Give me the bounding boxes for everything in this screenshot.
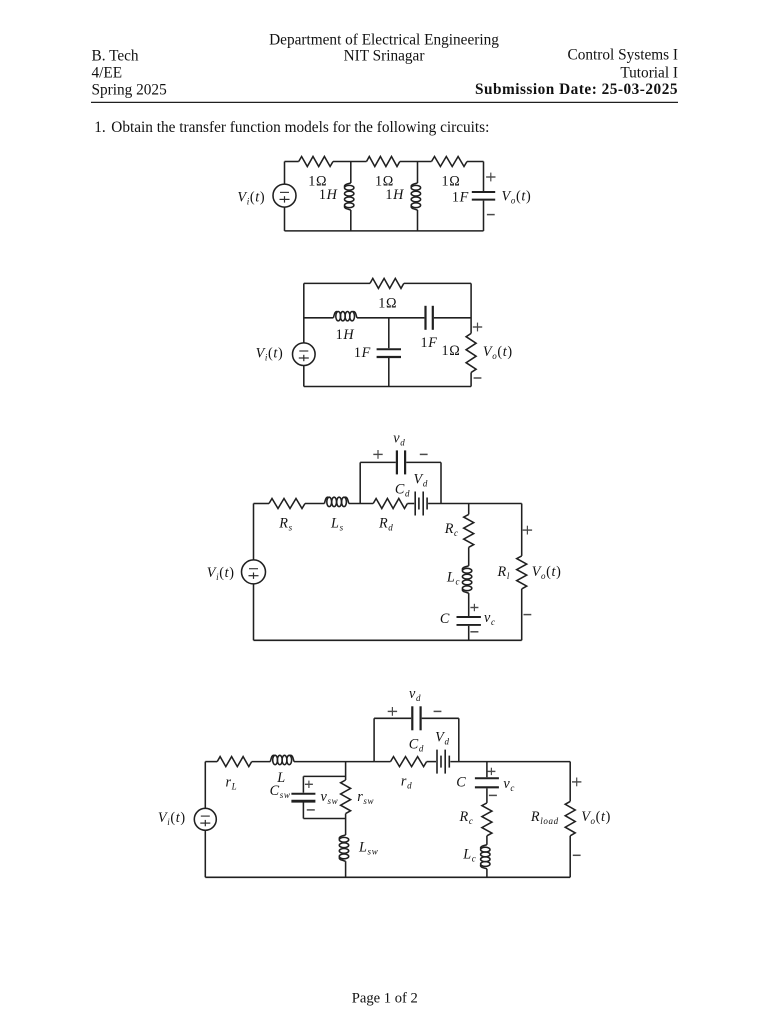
svg-text:vc: vc <box>503 776 515 793</box>
voltage source Vi(t) <box>293 343 316 366</box>
wire <box>422 717 459 719</box>
svg-text:rsw: rsw <box>357 789 374 806</box>
wire <box>350 162 352 184</box>
wire <box>303 366 305 387</box>
wire <box>486 869 488 878</box>
wire Csw top link <box>303 775 345 777</box>
svg-text:4/EE: 4/EE <box>92 64 123 81</box>
wire <box>468 547 470 566</box>
wire <box>303 283 305 343</box>
minus sign vc <box>489 794 497 796</box>
wire <box>357 317 425 319</box>
battery Vd <box>437 750 449 774</box>
minus sign vd <box>434 710 442 712</box>
wire <box>388 318 390 348</box>
capacitor 1F shunt <box>377 349 401 357</box>
wire <box>468 626 470 641</box>
inductor Ls <box>324 497 348 506</box>
wire <box>254 639 522 641</box>
wire <box>304 282 370 284</box>
voltage source Vi(t) <box>194 808 216 830</box>
wire <box>470 283 472 333</box>
svg-text:Vi(t): Vi(t) <box>237 189 265 206</box>
wire <box>284 207 286 231</box>
svg-text:Rs: Rs <box>278 516 292 533</box>
resistor R2 1ohm <box>367 157 400 167</box>
svg-text:1Ω: 1Ω <box>442 173 461 189</box>
svg-text:Rload: Rload <box>530 809 559 826</box>
svg-text:1F: 1F <box>452 190 469 206</box>
wire <box>305 503 324 505</box>
svg-text:Lc: Lc <box>446 570 460 587</box>
resistor Rload <box>565 801 575 835</box>
capacitor Cd <box>412 706 420 730</box>
plus sign output <box>486 176 495 178</box>
wire <box>468 504 470 515</box>
svg-text:Cd: Cd <box>395 482 410 499</box>
wire C branch <box>486 762 488 778</box>
plus sign vd <box>388 710 397 712</box>
inductor Lsw <box>339 835 348 861</box>
wire <box>304 317 334 319</box>
wire <box>521 504 523 556</box>
resistor R1 1ohm <box>299 157 333 167</box>
svg-text:Vo(t): Vo(t) <box>483 344 513 361</box>
svg-text:vc: vc <box>484 610 496 627</box>
svg-text:vsw: vsw <box>321 789 339 806</box>
svg-text:Vo(t): Vo(t) <box>502 189 532 206</box>
wire <box>404 282 471 284</box>
plus sign vd <box>373 453 382 455</box>
wire <box>285 161 299 163</box>
capacitor C1 1F <box>472 192 495 200</box>
capacitor C <box>457 617 481 625</box>
svg-text:Spring 2025: Spring 2025 <box>92 81 168 98</box>
wire <box>374 717 411 719</box>
wire <box>345 861 347 877</box>
wire <box>284 162 286 185</box>
wire <box>349 503 373 505</box>
inductor Lc <box>481 845 490 869</box>
svg-text:Tutorial I: Tutorial I <box>620 64 678 81</box>
wire <box>521 589 523 640</box>
svg-text:rd: rd <box>401 773 412 790</box>
wire <box>450 761 570 763</box>
wire <box>483 162 485 192</box>
wire <box>204 830 206 877</box>
wire <box>427 761 436 763</box>
resistor Rd <box>373 499 407 509</box>
svg-text:1.: 1. <box>94 119 105 136</box>
resistor R3 1ohm <box>432 157 468 167</box>
wire Cd branch left <box>373 718 375 761</box>
svg-text:Cd: Cd <box>409 736 424 753</box>
minus sign vd <box>420 453 428 455</box>
svg-text:Vi(t): Vi(t) <box>207 565 235 582</box>
svg-text:vd: vd <box>393 430 405 447</box>
wire <box>254 503 270 505</box>
minus sign output <box>573 854 581 856</box>
svg-text:1H: 1H <box>319 187 338 203</box>
wire Cd branch right <box>458 718 460 761</box>
wire <box>417 162 419 184</box>
wire <box>285 230 484 232</box>
svg-text:1H: 1H <box>336 327 355 343</box>
wire <box>486 836 488 845</box>
svg-text:Ls: Ls <box>330 516 344 533</box>
svg-text:Lc: Lc <box>462 846 476 863</box>
wire <box>205 761 217 763</box>
capacitor C <box>475 778 499 787</box>
voltage source Vi(t) <box>242 560 266 584</box>
svg-text:rL: rL <box>225 775 237 792</box>
inductor Lc <box>462 566 471 593</box>
svg-text:Department of Electrical Engin: Department of Electrical Engineering <box>269 31 499 48</box>
wire <box>302 776 304 792</box>
svg-text:Rc: Rc <box>459 809 474 826</box>
wire <box>470 373 472 387</box>
inductor 1H <box>333 312 357 321</box>
wire <box>360 461 396 463</box>
wire <box>467 161 484 163</box>
wire <box>400 161 432 163</box>
minus sign output <box>474 377 482 379</box>
svg-text:C: C <box>456 774 466 790</box>
minus sign output <box>524 614 532 616</box>
svg-text:Vi(t): Vi(t) <box>158 810 186 827</box>
svg-text:1H: 1H <box>385 187 404 203</box>
resistor rd <box>391 757 427 767</box>
resistor Rc <box>482 803 492 836</box>
header rule <box>91 101 678 103</box>
wire Rload branch <box>569 762 571 802</box>
svg-text:B. Tech: B. Tech <box>92 48 139 65</box>
svg-text:vd: vd <box>409 686 421 703</box>
svg-text:Rd: Rd <box>378 516 393 533</box>
minus sign output <box>487 214 495 216</box>
svg-text:NIT Srinagar: NIT Srinagar <box>344 48 425 65</box>
wire <box>406 461 441 463</box>
wire <box>253 584 255 640</box>
svg-text:Lsw: Lsw <box>358 840 378 857</box>
plus sign vc <box>487 770 495 772</box>
svg-text:1F: 1F <box>354 345 371 361</box>
svg-text:Rl: Rl <box>497 564 510 581</box>
wire <box>483 201 485 231</box>
svg-text:1Ω: 1Ω <box>442 343 461 359</box>
resistor Rs <box>269 499 305 509</box>
inductor L2 1H <box>411 183 420 210</box>
inductor L1 1H <box>345 183 354 210</box>
svg-text:Vo(t): Vo(t) <box>581 809 611 826</box>
svg-text:Vo(t): Vo(t) <box>532 564 562 581</box>
wire <box>468 593 470 616</box>
plus sign vsw <box>305 783 313 785</box>
wire <box>417 210 419 231</box>
resistor Rc <box>464 514 474 547</box>
resistor 1ohm output <box>466 333 476 372</box>
svg-text:C: C <box>440 611 450 627</box>
resistor 1ohm top <box>370 278 404 288</box>
wire <box>486 788 488 803</box>
svg-text:1Ω: 1Ω <box>378 295 397 311</box>
svg-text:Submission Date: 25-03-2025: Submission Date: 25-03-2025 <box>475 81 678 98</box>
capacitor Csw <box>291 794 315 801</box>
wire <box>388 358 390 387</box>
wire <box>440 462 442 503</box>
minus sign vc <box>470 631 478 633</box>
voltage source Vi(t) <box>273 184 296 207</box>
wire <box>302 802 304 818</box>
wire rsw branch top <box>345 762 347 780</box>
svg-text:Obtain the transfer function m: Obtain the transfer function models for … <box>111 119 489 136</box>
wire <box>294 761 374 763</box>
wire <box>333 161 367 163</box>
svg-text:Page 1 of 2: Page 1 of 2 <box>352 991 418 1007</box>
wire Csw bottom link <box>303 818 345 820</box>
resistor rsw <box>341 780 351 814</box>
plus sign vc <box>470 607 478 609</box>
wire <box>407 503 414 505</box>
svg-text:Control Systems I: Control Systems I <box>568 47 678 64</box>
svg-text:Vi(t): Vi(t) <box>256 346 284 363</box>
wire <box>304 386 471 388</box>
wire <box>434 317 471 319</box>
svg-text:Rc: Rc <box>444 521 459 538</box>
wire <box>205 876 570 878</box>
svg-text:1F: 1F <box>420 335 437 351</box>
wire <box>345 814 347 835</box>
svg-text:Vd: Vd <box>414 472 428 489</box>
wire <box>374 761 390 763</box>
wire <box>350 210 352 231</box>
wire <box>569 836 571 878</box>
capacitor Cd <box>397 450 405 474</box>
capacitor 1F series <box>426 306 433 330</box>
minus sign vsw <box>307 809 315 811</box>
battery Vd <box>415 492 427 516</box>
resistor rL <box>217 757 252 767</box>
plus sign output <box>523 529 532 531</box>
svg-text:Vd: Vd <box>435 730 449 747</box>
resistor Rl <box>517 556 527 589</box>
plus sign output <box>572 781 581 783</box>
wire <box>253 504 255 560</box>
node split to Cd branch <box>359 462 361 503</box>
inductor L <box>270 755 294 764</box>
wire <box>428 503 522 505</box>
wire <box>252 761 271 763</box>
plus sign output <box>473 326 482 328</box>
wire <box>204 762 206 809</box>
